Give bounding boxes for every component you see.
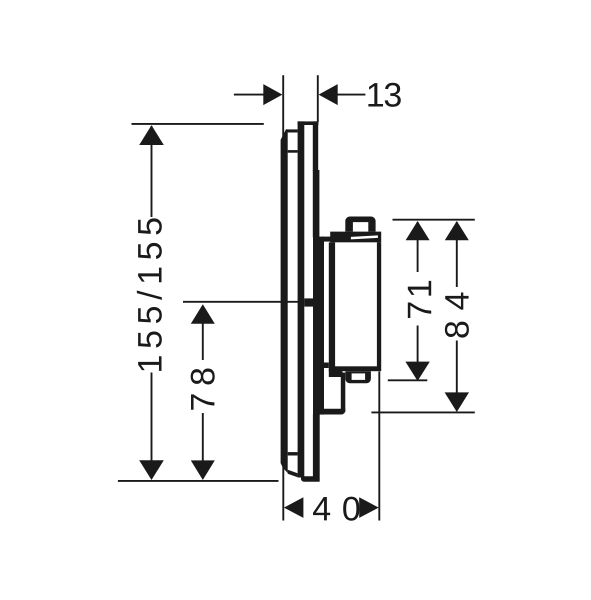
arrow 40 left (pointing left) (284, 497, 304, 518)
dim 78 segment lower (202, 413, 204, 478)
bottom bridge (301, 476, 319, 482)
dim 71 segment upper (417, 222, 419, 272)
arrow 71 top (up) (406, 221, 430, 240)
cartridge bottom cap (345, 371, 371, 383)
arrow 155 top (up) (139, 125, 164, 145)
cartridge body (black shell) (329, 242, 381, 371)
label 40 (313, 497, 359, 521)
back flange bar bottom (313, 414, 320, 482)
flange white slit (351, 235, 378, 239)
cartridge top knob (345, 217, 375, 232)
plate rim rung lower (288, 452, 298, 455)
bracket right edge (341, 373, 346, 412)
label 13 (368, 83, 400, 107)
ext line 40 right (378, 372, 380, 521)
arrow 155 bottom (down) (139, 460, 164, 480)
ext line 155 top (132, 123, 264, 125)
ext line 13 right (317, 75, 319, 122)
channel H-rung (304, 298, 313, 306)
dim 155 segment upper (151, 126, 153, 217)
valve box left wall (merged with back bar) (313, 237, 324, 415)
label 78 (191, 369, 215, 410)
dim 13 right tail (337, 94, 366, 96)
ext line 78 top (183, 301, 300, 303)
arrow 71 bottom (down) (405, 362, 429, 381)
arrow 84 top (up) (445, 221, 469, 240)
arrow 13 right (pointing left) (319, 84, 338, 105)
cartridge flange (330, 232, 381, 243)
back flange bar upper (313, 121, 318, 171)
ext line 13 left (282, 75, 284, 137)
ext line 40 left (282, 463, 284, 521)
arrow 13 left (pointing right) (263, 84, 282, 105)
label 84 (445, 293, 469, 338)
ext line 71 bottom (388, 379, 428, 381)
holder ledge (322, 237, 332, 242)
ext line 155 bottom (118, 480, 279, 482)
arrow 84 bottom (down) (445, 392, 469, 412)
ext line 84 bottom (371, 411, 474, 413)
dim 71 segment lower (417, 326, 419, 373)
bracket ledge (329, 369, 343, 377)
label 155/155 (137, 218, 162, 370)
dim 84 segment lower (456, 341, 458, 395)
ext line 71-84 top (393, 219, 475, 221)
sleeve bar (298, 121, 305, 477)
dim 155 segment lower (151, 373, 153, 479)
back flange bar mid (313, 170, 320, 237)
arrow 40 right (pointing right) (359, 497, 379, 518)
dim 78 segment upper (202, 306, 204, 360)
label 71 (408, 281, 431, 318)
arrow 78 top (up) (191, 304, 215, 324)
bracket bottom band (313, 409, 345, 415)
dim 13 left tail (234, 94, 265, 96)
plate rim rung upper (288, 150, 298, 153)
arrow 78 bottom (down) (191, 460, 215, 480)
dim 84 segment upper (456, 222, 458, 287)
plate rim bottom slant cap (288, 470, 298, 477)
cartridge body interior (335, 242, 377, 366)
channel rung (324, 363, 329, 369)
escutcheon plate front bar (281, 129, 288, 473)
plate top cap (286, 129, 298, 132)
top bridge (298, 121, 319, 125)
bottom cap inner white (352, 373, 366, 380)
